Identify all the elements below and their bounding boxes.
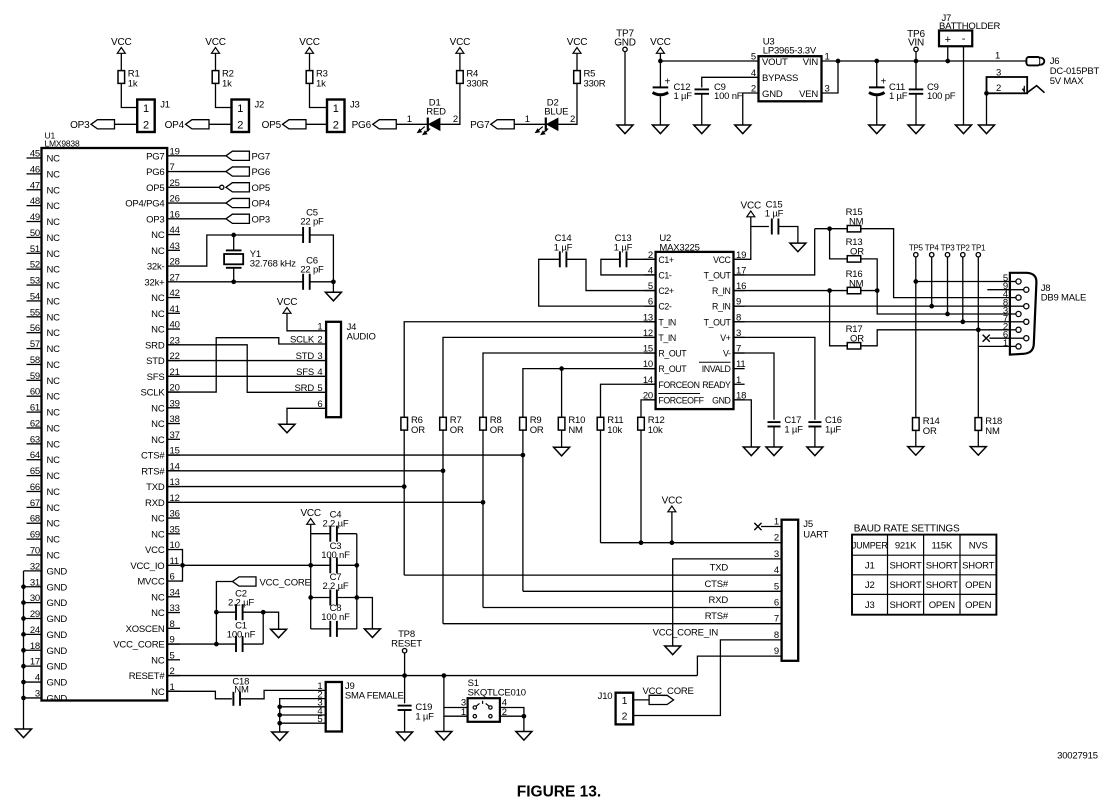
svg-text:34: 34 bbox=[170, 587, 180, 598]
wire VCC to J4 pin 1 bbox=[287, 313, 326, 331]
svg-text:C1-: C1- bbox=[658, 270, 671, 280]
svg-text:NC: NC bbox=[47, 185, 61, 196]
svg-text:VCC_CORE: VCC_CORE bbox=[643, 686, 694, 697]
wire U2 T_IN pin 13 to R6 bbox=[404, 322, 655, 417]
svg-text:NC: NC bbox=[151, 435, 165, 446]
svg-text:1: 1 bbox=[317, 321, 322, 332]
svg-text:100 nF: 100 nF bbox=[321, 612, 350, 623]
test point TP4 bbox=[925, 244, 940, 257]
svg-text:8: 8 bbox=[170, 619, 175, 630]
svg-text:PG6: PG6 bbox=[146, 167, 164, 178]
wire cap bank right rail bbox=[354, 534, 359, 629]
svg-text:GND: GND bbox=[47, 614, 68, 625]
svg-text:2: 2 bbox=[333, 120, 339, 132]
wire TP3 to pin 3 net bbox=[945, 257, 950, 316]
wire C15 to ground bbox=[778, 227, 798, 244]
svg-text:330R: 330R bbox=[466, 79, 488, 90]
U1 pin 19 PG7 bbox=[146, 146, 180, 162]
svg-text:C2+: C2+ bbox=[658, 286, 673, 296]
svg-text:1: 1 bbox=[333, 103, 339, 115]
wire SFS net U1 to J4 pin 4 bbox=[167, 375, 326, 377]
ground (TP7) bbox=[617, 125, 633, 134]
svg-text:NC: NC bbox=[151, 608, 165, 619]
svg-text:J1: J1 bbox=[160, 100, 170, 111]
svg-text:NC: NC bbox=[47, 408, 61, 419]
wire TP2 to pin 7 net bbox=[960, 257, 965, 324]
svg-text:1k: 1k bbox=[222, 79, 232, 90]
wire RESET net to S1 bbox=[444, 676, 468, 732]
svg-text:10k: 10k bbox=[607, 425, 622, 436]
ground (U3 GND) bbox=[735, 125, 751, 134]
svg-text:1: 1 bbox=[736, 375, 741, 386]
svg-text:27: 27 bbox=[170, 272, 180, 283]
svg-text:51: 51 bbox=[30, 244, 40, 255]
ground (J7) bbox=[956, 125, 972, 134]
svg-text:OP3: OP3 bbox=[146, 214, 164, 225]
wire U1 OP3 to flag bbox=[180, 218, 226, 220]
svg-text:SCLK: SCLK bbox=[290, 335, 315, 346]
wire C13 to U2 C1- pin 4 bbox=[601, 259, 656, 275]
wire VOUT node to C12 bbox=[659, 61, 661, 87]
svg-text:49: 49 bbox=[30, 212, 40, 223]
capacitor C5 22pF bbox=[300, 207, 324, 243]
U1 pin 28 32k- bbox=[147, 257, 180, 273]
svg-text:46: 46 bbox=[30, 164, 40, 175]
svg-text:40: 40 bbox=[170, 320, 180, 331]
svg-text:NC: NC bbox=[47, 503, 61, 514]
svg-text:+: + bbox=[881, 77, 887, 88]
svg-text:NC: NC bbox=[151, 309, 165, 320]
svg-text:GND: GND bbox=[762, 89, 783, 100]
svg-text:5: 5 bbox=[317, 383, 322, 394]
U1 pin 65 NC bbox=[27, 466, 61, 482]
svg-text:R_OUT: R_OUT bbox=[658, 349, 687, 359]
wire TP7 to ground bbox=[624, 52, 626, 125]
svg-text:30: 30 bbox=[30, 593, 40, 604]
svg-text:NC: NC bbox=[151, 514, 165, 525]
svg-text:NC: NC bbox=[47, 551, 61, 562]
resistor R2 1k bbox=[212, 69, 234, 90]
connector J8 DB9 MALE bbox=[1003, 273, 1086, 355]
wire U2 FORCEON pin 14 to R11 bbox=[601, 384, 656, 417]
ground (cap bank) bbox=[364, 629, 380, 638]
ground (C12) bbox=[652, 125, 668, 134]
wire R3 to J3 pin1 bbox=[310, 83, 328, 107]
svg-text:7: 7 bbox=[170, 162, 175, 173]
U2 pin 19 VCC bbox=[713, 250, 746, 265]
power flag VCC (J5) bbox=[662, 496, 683, 512]
connector J6 DC-015PBT barrel bbox=[1026, 56, 1099, 87]
ground (C9 100pF) bbox=[908, 125, 924, 134]
svg-text:56: 56 bbox=[30, 323, 40, 334]
wire U2 T_OUT pin 17 riser bbox=[734, 229, 815, 275]
svg-text:VEN: VEN bbox=[799, 89, 818, 100]
U1 pin 63 NC bbox=[27, 434, 61, 450]
wire RTS# to J5 pin 7 bbox=[443, 430, 782, 623]
U2 pin 12 T_IN bbox=[643, 328, 676, 343]
capacitor C12 1uF bbox=[653, 77, 693, 103]
svg-text:1: 1 bbox=[461, 707, 466, 718]
resistor R6 OR bbox=[401, 415, 425, 436]
U1 pin 40 NC bbox=[151, 320, 180, 336]
svg-text:18: 18 bbox=[30, 641, 40, 652]
svg-text:42: 42 bbox=[170, 288, 180, 299]
U1 pin 26 OP4/PG4 bbox=[125, 194, 180, 210]
svg-text:OPEN: OPEN bbox=[965, 580, 991, 591]
svg-text:OP5: OP5 bbox=[252, 183, 270, 194]
svg-text:NC: NC bbox=[47, 281, 61, 292]
wire J7 minus to ground bbox=[963, 46, 965, 125]
svg-text:PG6: PG6 bbox=[252, 167, 270, 178]
test point TP3 bbox=[941, 244, 956, 257]
svg-text:NC: NC bbox=[47, 519, 61, 530]
svg-text:OP5: OP5 bbox=[262, 120, 282, 131]
wire C16 to ground bbox=[814, 427, 816, 448]
svg-text:70: 70 bbox=[30, 546, 40, 557]
svg-text:55: 55 bbox=[30, 307, 40, 318]
svg-text:MAX3225: MAX3225 bbox=[659, 242, 699, 253]
svg-text:GND: GND bbox=[47, 693, 68, 704]
svg-text:35: 35 bbox=[170, 524, 180, 535]
net flag OP5 bbox=[262, 120, 306, 131]
capacitor C15 1uF bbox=[751, 199, 784, 234]
svg-text:7: 7 bbox=[774, 614, 779, 625]
svg-text:54: 54 bbox=[30, 291, 40, 302]
svg-text:J5: J5 bbox=[803, 519, 813, 530]
svg-text:VCC: VCC bbox=[205, 37, 226, 48]
net flag OP3 bbox=[70, 120, 114, 131]
svg-text:24: 24 bbox=[30, 625, 40, 636]
wire OP4 flag to J2 pin2 bbox=[209, 123, 232, 125]
svg-text:C1+: C1+ bbox=[658, 255, 673, 265]
U2 pin 7 V- bbox=[723, 344, 745, 359]
pin 3 label (J6 jack) bbox=[996, 67, 1001, 78]
node VOUT junction bbox=[658, 59, 663, 64]
svg-text:39: 39 bbox=[170, 398, 180, 409]
U1 pin 64 NC bbox=[27, 450, 61, 466]
svg-text:37: 37 bbox=[170, 430, 180, 441]
ground (C17) bbox=[766, 447, 782, 456]
no-connect X J5 pin 1 bbox=[754, 523, 781, 530]
svg-text:10: 10 bbox=[170, 540, 180, 551]
svg-text:NC: NC bbox=[47, 265, 61, 276]
svg-text:NC: NC bbox=[151, 529, 165, 540]
wire PG7 to D2 pin1 bbox=[514, 114, 546, 125]
svg-text:11: 11 bbox=[170, 556, 179, 567]
svg-text:32.768 kHz: 32.768 kHz bbox=[250, 259, 297, 270]
wire cap bank to ground bbox=[357, 598, 373, 629]
svg-text:SHORT: SHORT bbox=[926, 580, 958, 591]
ground (S1 right) bbox=[516, 732, 532, 741]
U1 pin 32 GND bbox=[24, 561, 68, 577]
svg-text:26: 26 bbox=[170, 194, 180, 205]
wire VCC_CORE net U1 pin 9 bbox=[167, 612, 236, 646]
U2 pin 17 T_OUT bbox=[704, 265, 747, 280]
resistor R14 OR bbox=[913, 416, 940, 437]
svg-text:NM: NM bbox=[849, 279, 864, 290]
wire RXD to J5 pin 6 bbox=[483, 430, 782, 607]
U2 pin 15 R_OUT bbox=[643, 344, 687, 359]
svg-text:2: 2 bbox=[751, 84, 756, 95]
ground (J6) bbox=[979, 125, 995, 134]
wire U2 R_OUT pin 10 to R9 and R10 bbox=[523, 366, 656, 417]
svg-text:115K: 115K bbox=[931, 540, 953, 551]
U1 pin 21 SFS bbox=[147, 367, 180, 383]
power flag VCC (cap bank) bbox=[300, 508, 321, 524]
svg-text:NC: NC bbox=[151, 293, 165, 304]
power flag VCC (R2) bbox=[205, 37, 226, 53]
U1 pin 52 NC bbox=[27, 260, 61, 276]
regulator U3 LP3965-3.3V bbox=[751, 37, 830, 102]
svg-text:32k+: 32k+ bbox=[144, 277, 165, 288]
resistor R3 1k bbox=[306, 69, 328, 90]
wire rail to C9 100pF bbox=[915, 61, 917, 89]
test point TP7 GND bbox=[614, 29, 636, 52]
wire STD net U1 to J4 pin 3 bbox=[167, 360, 326, 362]
svg-text:1: 1 bbox=[774, 517, 779, 528]
capacitor C7 2.2uF bbox=[311, 572, 357, 606]
wire C11 to ground bbox=[876, 97, 878, 126]
wire D1 pin2 to R4 bbox=[440, 83, 460, 125]
capacitor C17 1uF bbox=[768, 415, 804, 436]
svg-text:1: 1 bbox=[237, 103, 243, 115]
test point TP2 bbox=[956, 244, 971, 257]
wire J8 pin 9 stub bbox=[987, 289, 1010, 291]
svg-text:SHORT: SHORT bbox=[962, 560, 994, 571]
wire R13 left branch bbox=[830, 229, 847, 259]
U1 pin 53 NC bbox=[27, 276, 61, 292]
svg-text:OR: OR bbox=[411, 425, 425, 436]
svg-text:RED: RED bbox=[426, 107, 446, 118]
svg-text:66: 66 bbox=[30, 482, 40, 493]
connector J4 AUDIO bbox=[290, 321, 376, 417]
wire U3 GND pin 2 to ground bbox=[743, 93, 759, 125]
svg-text:19: 19 bbox=[170, 146, 180, 157]
svg-text:1: 1 bbox=[407, 114, 412, 125]
svg-text:VCC: VCC bbox=[650, 37, 671, 48]
svg-text:63: 63 bbox=[30, 434, 40, 445]
svg-text:67: 67 bbox=[30, 498, 40, 509]
power flag VCC (U2) bbox=[741, 201, 762, 217]
svg-text:NC: NC bbox=[47, 392, 61, 403]
U1 pin 5 NC bbox=[151, 650, 180, 666]
resistor R15 NM bbox=[846, 207, 864, 232]
wire rail to C11 bbox=[874, 59, 879, 87]
U1 pin 15 CTS# bbox=[141, 446, 180, 462]
wire VCC to R3 bbox=[309, 53, 311, 71]
svg-text:-: - bbox=[962, 33, 966, 45]
U1 pin 30 GND bbox=[24, 593, 68, 609]
svg-text:100 nF: 100 nF bbox=[227, 630, 256, 641]
U1 pin 34 NC bbox=[151, 587, 180, 603]
svg-text:V+: V+ bbox=[720, 333, 730, 343]
capacitor C13 1uF bbox=[614, 233, 633, 267]
U2 pin 3 V+ bbox=[720, 328, 744, 343]
ground (U1 GND bus) bbox=[16, 729, 32, 738]
svg-text:45: 45 bbox=[30, 149, 40, 160]
svg-text:RESET#: RESET# bbox=[129, 671, 166, 682]
U1 GND bus wire bbox=[21, 571, 26, 729]
power flag VCC (R4) bbox=[450, 37, 471, 53]
U2 pin 10 R_OUT bbox=[643, 359, 687, 374]
wire J7 plus to rail bbox=[945, 46, 950, 63]
jumper J1 bbox=[137, 100, 170, 133]
wire VCC to J5 pin 2 net bbox=[670, 512, 675, 545]
svg-text:OR: OR bbox=[490, 425, 504, 436]
svg-text:TXD: TXD bbox=[146, 482, 165, 493]
wire U1 OP4 to flag bbox=[180, 202, 226, 204]
svg-text:1: 1 bbox=[143, 103, 149, 115]
resistor R8 OR bbox=[480, 415, 504, 436]
svg-text:FORCEOFF: FORCEOFF bbox=[658, 395, 704, 405]
ground (J5 pin 3) bbox=[665, 646, 681, 655]
svg-text:NC: NC bbox=[47, 535, 61, 546]
U1 pin 56 NC bbox=[27, 323, 61, 339]
wire VCC_CORE flag to C2 bbox=[216, 582, 232, 613]
ground (C1 C2) bbox=[271, 629, 287, 638]
wire J9 shield pins to ground bbox=[277, 699, 325, 732]
wire U2 R_OUT pin 15 to R8 bbox=[483, 353, 656, 417]
svg-text:5V MAX: 5V MAX bbox=[1050, 76, 1085, 87]
svg-text:68: 68 bbox=[30, 514, 40, 525]
svg-text:SFS: SFS bbox=[296, 367, 314, 378]
U1 pin 35 NC bbox=[151, 524, 180, 540]
svg-text:TP3: TP3 bbox=[941, 244, 956, 253]
wire J8 pin 5 net bbox=[916, 281, 1010, 283]
wire S1 right pins to ground bbox=[500, 708, 526, 732]
wire 32k- net bbox=[180, 235, 303, 266]
svg-text:NC: NC bbox=[47, 376, 61, 387]
J6 jack switch contact bbox=[987, 77, 1045, 94]
svg-text:2: 2 bbox=[996, 83, 1001, 94]
wire J6 to ground bbox=[984, 91, 989, 125]
wire R14 to ground bbox=[915, 430, 917, 446]
wire VCC to U2 VCC pin 19 bbox=[734, 217, 751, 259]
net flag OP4 bbox=[165, 120, 209, 131]
svg-text:NC: NC bbox=[151, 687, 165, 698]
svg-text:VCC_IO: VCC_IO bbox=[130, 561, 164, 572]
svg-text:2: 2 bbox=[143, 120, 149, 132]
svg-text:GND: GND bbox=[712, 395, 730, 405]
svg-text:TXD: TXD bbox=[710, 563, 729, 574]
svg-text:30027915: 30027915 bbox=[1057, 751, 1098, 762]
svg-text:NC: NC bbox=[47, 296, 61, 307]
svg-text:NC: NC bbox=[47, 455, 61, 466]
svg-text:OR: OR bbox=[923, 426, 937, 437]
wire U2 T_OUT pin 8 to J8 pin 7 bbox=[734, 321, 1010, 323]
wire U2 R_IN pin 9 to J8 pin 8 bbox=[734, 305, 1010, 307]
svg-text:22 pF: 22 pF bbox=[300, 265, 324, 276]
ground (J9) bbox=[272, 732, 288, 741]
test point TP1 bbox=[971, 244, 986, 257]
U1 pin 58 NC bbox=[27, 355, 61, 371]
svg-text:J2: J2 bbox=[255, 100, 265, 111]
U2 pin 14 FORCEON bbox=[643, 375, 700, 390]
wire 32k+ net bbox=[180, 279, 303, 284]
wire C6 to ground node bbox=[310, 279, 336, 284]
svg-text:RESET: RESET bbox=[391, 639, 422, 650]
svg-text:CTS#: CTS# bbox=[141, 451, 165, 462]
net flag PG7 bbox=[226, 151, 270, 162]
svg-text:330R: 330R bbox=[584, 79, 606, 90]
U1 pin 22 STD bbox=[146, 351, 180, 367]
wire U2 GND pin 18 to ground bbox=[734, 400, 752, 447]
svg-text:53: 53 bbox=[30, 276, 40, 287]
U1 pin 20 SCLK bbox=[140, 383, 180, 399]
U1 pin 42 NC bbox=[151, 288, 180, 304]
svg-text:READY: READY bbox=[702, 380, 731, 390]
svg-text:SRD: SRD bbox=[145, 340, 165, 351]
svg-text:69: 69 bbox=[30, 530, 40, 541]
svg-text:VIN: VIN bbox=[803, 57, 819, 68]
LED D1 RED bbox=[418, 98, 446, 135]
ground (C16) bbox=[807, 447, 823, 456]
power flag VCC (R3) bbox=[299, 37, 320, 53]
U1 pin 6 MVCC bbox=[137, 572, 180, 588]
svg-text:VCC: VCC bbox=[300, 508, 321, 519]
ground (crystal) bbox=[325, 292, 341, 301]
svg-text:VCC: VCC bbox=[277, 297, 298, 308]
svg-text:V-: V- bbox=[723, 349, 731, 359]
wire J5 pin 3 to ground bbox=[673, 559, 782, 646]
svg-text:C2-: C2- bbox=[658, 302, 671, 312]
svg-text:4: 4 bbox=[35, 673, 40, 684]
wire R5 to VCC bbox=[576, 53, 578, 71]
U2 pin 13 T_IN bbox=[643, 312, 676, 327]
svg-text:VCC: VCC bbox=[111, 37, 132, 48]
wire J4 pin 6 to ground bbox=[287, 408, 326, 424]
svg-text:3: 3 bbox=[317, 351, 322, 362]
U1 pin 50 NC bbox=[27, 228, 61, 244]
svg-text:1 µF: 1 µF bbox=[614, 242, 633, 253]
U1 pin 7 PG6 bbox=[146, 162, 180, 178]
net flag OP4 bbox=[226, 198, 270, 209]
resistor R7 OR bbox=[440, 415, 464, 436]
test point TP6 VIN bbox=[907, 29, 925, 52]
capacitor C18 NM bbox=[232, 676, 249, 706]
net flag VCC_CORE bbox=[233, 577, 311, 589]
svg-text:GND: GND bbox=[47, 662, 68, 673]
svg-text:NC: NC bbox=[47, 169, 61, 180]
svg-text:50: 50 bbox=[30, 228, 40, 239]
svg-text:NC: NC bbox=[47, 312, 61, 323]
net flag OP5 bbox=[226, 183, 270, 194]
svg-text:2.2 µF: 2.2 µF bbox=[323, 519, 349, 530]
svg-text:BYPASS: BYPASS bbox=[762, 73, 798, 84]
U1 pin 33 NC bbox=[151, 603, 180, 619]
U2 pin 18 GND bbox=[712, 390, 746, 405]
svg-text:OP3: OP3 bbox=[252, 214, 270, 225]
wire VCC to R1 bbox=[120, 53, 122, 71]
svg-text:5: 5 bbox=[170, 650, 175, 661]
svg-text:STD: STD bbox=[296, 351, 315, 362]
svg-text:SHORT: SHORT bbox=[890, 560, 922, 571]
svg-text:17: 17 bbox=[30, 657, 40, 668]
U2 pin 20 FORCEOFF bbox=[643, 390, 705, 405]
svg-text:6: 6 bbox=[170, 572, 175, 583]
wire R16 junction to J8 pin 3 bbox=[877, 291, 1010, 314]
test point TP8 RESET bbox=[391, 629, 422, 653]
wire TP1 to J8 pin 2 net and R18 bbox=[976, 257, 981, 417]
wire R16 to pin 3 riser bbox=[861, 288, 879, 293]
svg-text:NC: NC bbox=[47, 328, 61, 339]
svg-text:JUMPER: JUMPER bbox=[852, 540, 889, 550]
svg-text:NC: NC bbox=[47, 154, 61, 165]
svg-text:100 pF: 100 pF bbox=[927, 91, 956, 102]
wire RESET# net U1 to J5 pin 9 bbox=[167, 673, 697, 678]
U1 pin 48 NC bbox=[27, 196, 61, 212]
svg-text:NM: NM bbox=[985, 426, 1000, 437]
